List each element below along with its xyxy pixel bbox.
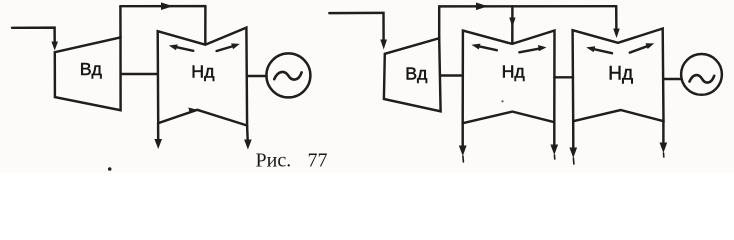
steam flow arrow LP1 right wing [519,49,539,53]
arrowhead: inlet down arrow left [51,42,58,51]
wire: LP2 inlet drop [615,6,618,33]
turbine НД2 (LP double-flow 2, right schematic) [573,29,664,122]
wire: LP inlet drop left [204,6,207,43]
turbine ВД (HP cylinder, right schematic) [384,38,441,111]
wire: live steam inlet left schematic [12,28,55,43]
exhaust arrow LP right (left schematic) [246,126,249,142]
turbine ВД (HP cylinder, left schematic) [55,37,121,110]
exhaust arrow LP2 left [572,121,575,149]
arrowhead: LP2 inlet arrow [613,29,620,39]
wire: LP1 inlet drop [511,6,514,43]
wire: shaft ВД–НД left [121,73,158,75]
wire: live steam inlet right schematic [329,13,383,40]
arrowhead: LP1 inlet arrow [509,18,515,28]
arrowhead: flow mark on LP bottom edge left schematic [188,108,197,113]
wire: shaft НД1–НД2 [554,76,573,78]
svg-text:Вд: Вд [80,59,103,79]
AC tilde symbol right generator [690,75,715,82]
steam flow arrow LP1 left wing [480,46,497,50]
AC tilde symbol left generator [274,72,301,80]
steam flow arrow LP right wing (left schematic) [217,46,234,51]
wire: shaft ВД–НД1 right [441,74,463,76]
steam flow arrow LP2 left wing [595,49,613,53]
svg-text:Вд: Вд [405,63,428,83]
svg-text:Рис.77: Рис.77 [256,150,328,172]
svg-text:Нд: Нд [608,64,633,85]
steam flow arrow LP left wing (left schematic) [175,47,193,51]
exhaust arrow LP left (left schematic) [157,123,160,141]
wire: shaft НД2–generator right [664,78,682,80]
arrowhead: rail flow arrow left [161,2,173,10]
generator G right [681,54,722,95]
arrowhead: inlet down arrow right [380,40,387,50]
wire: crossover rail right [439,5,616,8]
ink dot speck [108,167,112,171]
wire: shaft НД–generator left [247,75,267,77]
wire: crossover rail left [120,5,205,8]
exhaust arrow LP1 left [461,123,463,147]
turbine НД (LP double-flow, left schematic) [158,28,247,126]
generator G left [266,53,310,97]
exhaust arrow LP2 right [662,121,664,144]
wire: HP exhaust riser left [119,6,122,37]
turbine НД1 (LP double-flow 1, right schematic) [463,31,555,124]
arrowhead: rail flow arrow right [476,3,488,11]
wire: HP exhaust riser right [438,6,440,38]
ink speck [501,100,503,102]
exhaust arrow LP1 right [553,122,555,146]
svg-text:Нд: Нд [191,62,215,82]
svg-text:Нд: Нд [502,61,526,81]
steam flow arrow LP2 right wing [630,46,647,52]
